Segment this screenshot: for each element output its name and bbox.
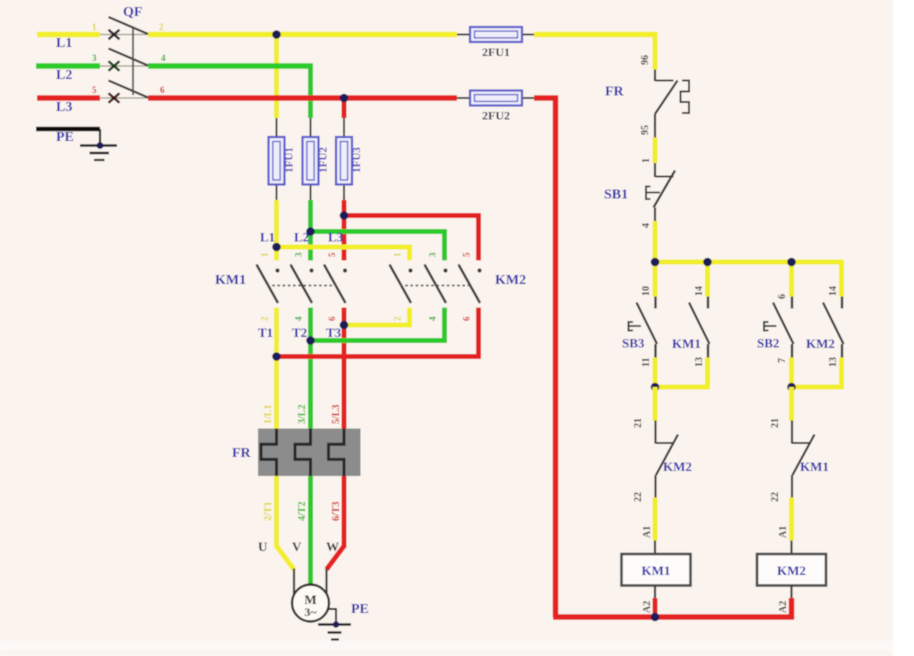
wire motor lead W xyxy=(325,569,327,597)
wire KM2-aux branch top xyxy=(839,262,844,297)
svg-text:FR: FR xyxy=(605,85,625,100)
svg-text:KM2: KM2 xyxy=(663,459,692,474)
fuse 1FU1 xyxy=(269,118,296,200)
contactor KM1 main contacts xyxy=(257,265,348,304)
svg-text:5: 5 xyxy=(462,252,472,257)
wire L3 horizontal feed (red) xyxy=(37,95,558,101)
svg-text:95: 95 xyxy=(640,125,651,135)
overload relay FR NC contact xyxy=(655,70,689,138)
PE rail xyxy=(36,129,100,146)
junction node 1FU1 out / KM2 tap xyxy=(272,243,281,252)
wire control feed (red, from 2FU2) xyxy=(553,96,794,618)
svg-text:6: 6 xyxy=(160,85,165,95)
svg-text:1FU1: 1FU1 xyxy=(284,147,296,173)
wire phase-A vertical (L1 feeder, yellow) xyxy=(277,35,295,570)
junction L3 / 1FU3 tap xyxy=(340,94,349,103)
svg-text:5: 5 xyxy=(327,252,337,257)
pushbutton SB3 (NO start fwd) xyxy=(629,297,658,358)
junction node T3 / KM2 out xyxy=(340,321,349,330)
wire KM1-NC to coil KM2 (yellow) xyxy=(789,498,794,541)
svg-text:1: 1 xyxy=(641,158,652,163)
svg-text:6/T3: 6/T3 xyxy=(331,502,342,521)
svg-text:22: 22 xyxy=(770,492,781,502)
ground (motor PE) xyxy=(318,621,351,639)
svg-text:3: 3 xyxy=(92,53,97,63)
svg-text:L3: L3 xyxy=(56,100,72,115)
wire SB1 to bus (yellow) xyxy=(653,221,658,265)
svg-text:L1: L1 xyxy=(260,230,275,245)
wire phase-C vertical (L3 feeder, red) xyxy=(327,98,345,570)
contact KM1 auxiliary NO xyxy=(689,297,710,358)
fuse 2FU2 xyxy=(457,91,534,123)
junction bus/SB2 xyxy=(787,258,796,267)
svg-text:4: 4 xyxy=(428,316,438,321)
wire motor lead V xyxy=(309,583,311,586)
svg-text:14: 14 xyxy=(828,286,839,296)
junction node 1FU2 out / KM2 tap xyxy=(306,227,315,236)
svg-text:7: 7 xyxy=(777,358,788,363)
svg-text:3~: 3~ xyxy=(304,605,317,619)
svg-text:KM2: KM2 xyxy=(777,563,806,578)
svg-text:T1: T1 xyxy=(258,325,273,340)
svg-text:KM2: KM2 xyxy=(806,336,835,351)
svg-text:2/T1: 2/T1 xyxy=(263,502,274,521)
wire L1 horizontal feed (yellow) xyxy=(37,32,657,38)
wire to KM2 interlock (yellow) xyxy=(653,387,658,421)
wire control feed (yellow, from L1) xyxy=(653,32,658,70)
wire motor lead U xyxy=(293,569,295,597)
svg-text:2: 2 xyxy=(260,316,270,321)
junction bus/KM1-aux xyxy=(703,258,712,267)
wire KM2 pole2 out to T2 (green) xyxy=(311,308,448,344)
fuse 1FU3 xyxy=(336,118,363,200)
wire KM2 pole1 out to T3 (yellow) xyxy=(344,308,412,328)
junction node 1FU3 out / crossover xyxy=(340,211,349,220)
wire to KM1 interlock (yellow) xyxy=(789,387,794,421)
svg-text:11: 11 xyxy=(641,358,652,367)
svg-text:5/L3: 5/L3 xyxy=(331,405,342,424)
svg-text:13: 13 xyxy=(828,357,839,367)
svg-text:PE: PE xyxy=(56,130,74,145)
svg-text:4: 4 xyxy=(294,316,304,321)
wire SB3 branch bottom xyxy=(653,358,658,390)
svg-text:L3: L3 xyxy=(328,230,344,245)
motor M (3~) xyxy=(292,585,329,622)
svg-text:A1: A1 xyxy=(778,526,789,538)
svg-text:2: 2 xyxy=(393,316,403,321)
svg-text:A2: A2 xyxy=(642,601,653,613)
wire L1 crossover to KM2 pole1 (yellow) xyxy=(277,245,413,261)
svg-text:21: 21 xyxy=(770,418,781,428)
svg-text:1: 1 xyxy=(393,252,403,257)
wire SB3 branch top xyxy=(653,262,658,297)
svg-text:14: 14 xyxy=(694,286,705,296)
wire KM1-aux branch bottom + tie xyxy=(655,358,710,390)
svg-text:W: W xyxy=(326,539,339,554)
wire motor PE lead xyxy=(329,609,337,625)
wire coil KM2 bottom lead xyxy=(790,586,792,601)
svg-text:KM1: KM1 xyxy=(642,563,671,578)
svg-text:6: 6 xyxy=(462,316,472,321)
svg-text:L1: L1 xyxy=(56,36,72,51)
junction SB3/KM1-aux xyxy=(651,383,660,392)
svg-text:L2: L2 xyxy=(294,230,309,245)
svg-text:21: 21 xyxy=(633,418,644,428)
overload relay FR heater block xyxy=(258,429,361,477)
svg-text:KM1: KM1 xyxy=(215,273,246,288)
wire SB2 branch top xyxy=(789,262,794,297)
svg-text:1FU2: 1FU2 xyxy=(318,147,330,173)
svg-text:1: 1 xyxy=(92,22,97,32)
wire coil KM1 top lead xyxy=(654,541,656,555)
svg-text:6: 6 xyxy=(327,316,337,321)
wire coil KM1 bottom lead xyxy=(654,586,656,601)
contact KM2 auxiliary NO xyxy=(823,297,844,358)
wire L2 to KM2 pole2 (green) xyxy=(311,229,448,261)
contact KM2 interlock NC xyxy=(656,421,679,499)
svg-text:QF: QF xyxy=(123,5,142,20)
wire coil KM2 top lead xyxy=(790,541,792,555)
svg-text:2FU1: 2FU1 xyxy=(482,45,510,59)
svg-text:3: 3 xyxy=(428,252,438,257)
pushbutton SB2 (NO start rev) xyxy=(764,297,794,358)
contactor KM2 main contacts xyxy=(390,265,482,304)
junction node T2 / KM2 out xyxy=(306,336,315,345)
svg-text:KM1: KM1 xyxy=(800,459,829,474)
ground (PE) xyxy=(80,142,117,160)
fuse 1FU2 xyxy=(303,118,330,200)
svg-text:5: 5 xyxy=(92,85,97,95)
svg-text:A1: A1 xyxy=(642,526,653,538)
svg-text:6: 6 xyxy=(777,294,788,299)
contact KM1 interlock NC xyxy=(792,421,815,499)
wire L2 horizontal feed (green) xyxy=(36,63,313,69)
svg-text:4: 4 xyxy=(161,53,166,63)
wire control bus (yellow) xyxy=(653,260,845,265)
wire KM2 coil to neutral rail (red) xyxy=(789,598,795,620)
coil KM2 xyxy=(757,554,826,586)
svg-text:13: 13 xyxy=(694,357,705,367)
wire L3 crossover to KM2 pole3 (red) xyxy=(344,213,481,261)
junction SB2/KM2-aux xyxy=(787,383,796,392)
junction node T1 / KM2 out xyxy=(272,352,281,361)
junction bus/SB3 xyxy=(651,258,660,267)
junction KM1-A2 / rail xyxy=(651,613,660,622)
svg-text:1/L1: 1/L1 xyxy=(263,405,274,424)
svg-text:10: 10 xyxy=(641,286,652,296)
svg-text:96: 96 xyxy=(640,55,651,65)
wire KM2 pole3 out to T1 (red) xyxy=(277,308,482,360)
pushbutton SB1 (NC stop) xyxy=(646,163,675,222)
svg-text:4: 4 xyxy=(641,223,652,228)
svg-text:A2: A2 xyxy=(778,601,789,613)
svg-text:V: V xyxy=(292,539,302,554)
junction L1 / 1FU1 tap xyxy=(272,30,281,39)
svg-text:3: 3 xyxy=(294,252,304,257)
svg-text:T3: T3 xyxy=(326,325,342,340)
coil KM1 xyxy=(622,554,691,586)
svg-text:FR: FR xyxy=(232,446,252,461)
svg-text:U: U xyxy=(258,539,268,554)
svg-text:2FU2: 2FU2 xyxy=(482,109,510,123)
wire KM2-aux branch bottom + tie xyxy=(792,358,845,390)
svg-text:3/L2: 3/L2 xyxy=(297,405,308,424)
svg-text:4/T2: 4/T2 xyxy=(297,502,308,521)
wire KM2-NC to coil KM1 (yellow) xyxy=(653,498,658,541)
svg-text:KM1: KM1 xyxy=(672,336,701,351)
wire FR-SB1 (yellow) xyxy=(653,138,658,164)
svg-text:2: 2 xyxy=(159,22,164,32)
svg-text:22: 22 xyxy=(633,492,644,502)
wire KM1 coil to neutral rail (red) xyxy=(653,598,658,617)
svg-text:SB3: SB3 xyxy=(622,336,645,351)
svg-text:1: 1 xyxy=(260,252,270,257)
svg-text:T2: T2 xyxy=(292,325,307,340)
svg-text:KM2: KM2 xyxy=(495,273,526,288)
svg-text:SB1: SB1 xyxy=(604,188,628,203)
svg-text:PE: PE xyxy=(351,602,369,617)
fuse 2FU1 xyxy=(457,27,534,59)
wire SB2 branch bottom xyxy=(789,358,794,390)
svg-text:SB2: SB2 xyxy=(757,336,779,351)
wire KM1-aux branch top xyxy=(705,262,710,297)
svg-text:L2: L2 xyxy=(56,68,72,83)
wire phase-B vertical (L2 feeder, green) xyxy=(308,66,313,584)
svg-text:1FU3: 1FU3 xyxy=(351,147,363,173)
breaker QF (3-pole) xyxy=(100,17,148,103)
